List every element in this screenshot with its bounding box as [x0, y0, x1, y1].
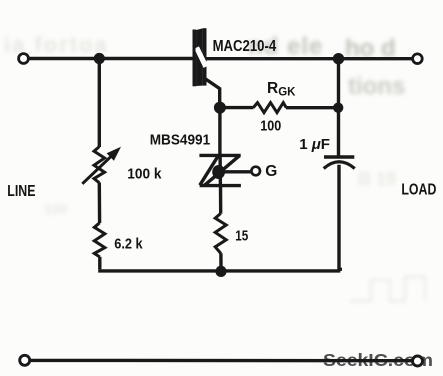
node: top of left branch: [94, 53, 105, 64]
svg-text:ia fortoa: ia fortoa: [4, 32, 109, 57]
wire resistor 15 to bottom node: [219, 253, 223, 271]
node: bottom center node: [215, 266, 226, 277]
wire RGK left lead: [220, 106, 254, 109]
svg-text:MAC210-4: MAC210-4: [213, 38, 277, 55]
wire RGK right lead: [286, 106, 338, 109]
svg-text:B 19: B 19: [358, 169, 396, 189]
svg-text:15: 15: [235, 228, 248, 245]
wire mid horizontal line: [98, 269, 340, 272]
node: RGK capacitor node: [333, 103, 343, 113]
svg-text:100 k: 100 k: [127, 165, 162, 182]
wire bottom rail: [30, 359, 412, 363]
svg-text:100: 100: [260, 117, 281, 134]
svg-text:6.2 k: 6.2 k: [114, 236, 143, 253]
wire left branch upper: [98, 59, 101, 148]
resistor RGK zigzag: [253, 103, 286, 113]
wire center branch gate node to SBS: [218, 108, 221, 156]
wire gate tap to G terminal: [219, 170, 251, 173]
potentiometer 100k zigzag: [94, 147, 105, 183]
resistor 6.2k zigzag: [94, 223, 105, 257]
wire right branch lower: [339, 165, 340, 271]
capacitor 1uF: [324, 157, 355, 169]
wire top rail right segment: [206, 57, 412, 60]
potentiometer arrow: [82, 147, 121, 184]
wire triac gate lead: [204, 78, 220, 108]
svg-text:G: G: [265, 163, 277, 180]
resistor 15 zigzag: [215, 213, 226, 253]
SBS MBS4991 symbol: [199, 155, 241, 185]
wire top rail left segment: [29, 57, 192, 60]
wire left branch lower: [98, 257, 101, 270]
terminal top-left: [19, 54, 29, 64]
terminal top-right: [413, 54, 423, 64]
terminal bottom-right: [413, 356, 423, 366]
node: SBS gate tap: [212, 165, 225, 179]
svg-text:LINE: LINE: [7, 183, 35, 200]
ghost square wave bottom right: [350, 277, 425, 301]
svg-text:LOAD: LOAD: [401, 181, 436, 198]
node: top of right branch: [333, 53, 344, 64]
svg-text:MBS4991: MBS4991: [150, 133, 211, 149]
wire left branch middle: [98, 183, 102, 224]
wire SBS to resistor 15: [219, 186, 223, 214]
node: gate node: [214, 102, 226, 114]
terminal bottom-left: [20, 355, 30, 365]
triac MAC210-4: [193, 28, 207, 86]
ghost bleed-through text line top: [4, 32, 405, 217]
terminal G: [251, 167, 260, 176]
svg-text:tions: tions: [348, 73, 405, 100]
svg-text:100: 100: [44, 201, 68, 217]
wire SBS internal vertical: [218, 156, 222, 186]
svg-text:1 μF: 1 μF: [299, 136, 330, 153]
wire right branch upper: [337, 59, 340, 156]
